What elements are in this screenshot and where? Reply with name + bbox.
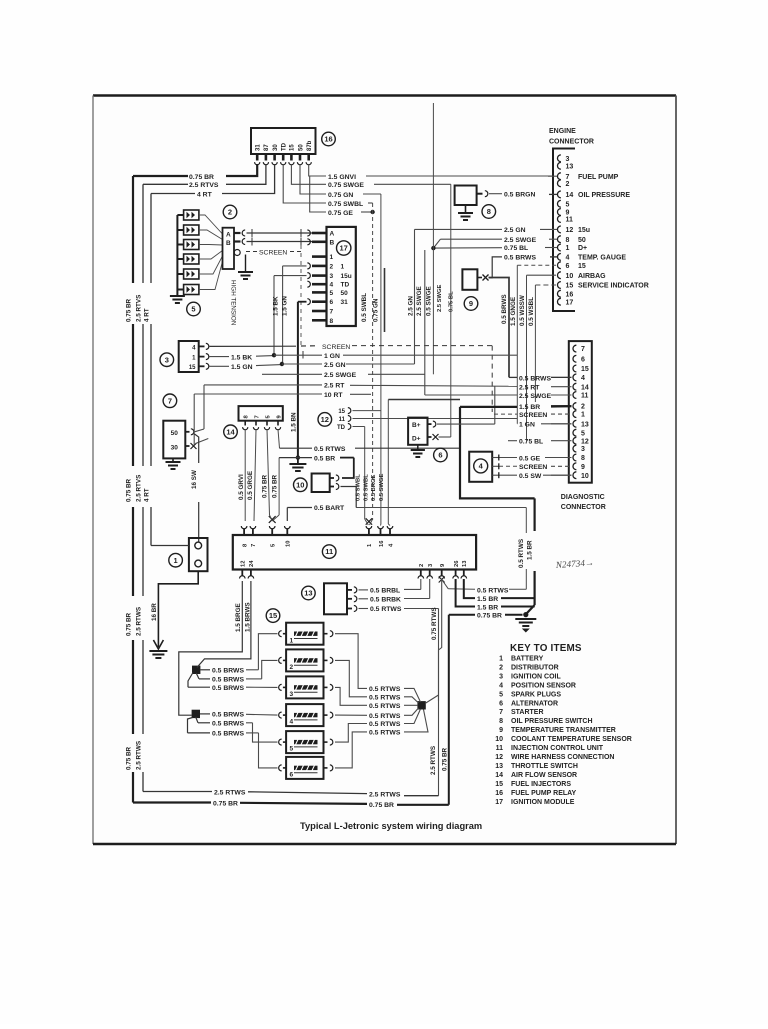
svg-text:D+: D+ bbox=[412, 435, 421, 442]
svg-text:2: 2 bbox=[419, 564, 425, 567]
svg-text:SCREEN: SCREEN bbox=[519, 464, 547, 471]
svg-text:15: 15 bbox=[338, 409, 345, 415]
svg-text:9: 9 bbox=[469, 299, 473, 308]
svg-text:7: 7 bbox=[566, 174, 570, 181]
svg-text:3: 3 bbox=[290, 691, 294, 698]
svg-text:6: 6 bbox=[438, 451, 442, 460]
svg-text:THROTTLE SWITCH: THROTTLE SWITCH bbox=[511, 763, 578, 770]
svg-text:8: 8 bbox=[330, 318, 334, 325]
svg-text:2.5 RTVS: 2.5 RTVS bbox=[189, 182, 219, 189]
svg-text:16 SW: 16 SW bbox=[191, 470, 198, 489]
svg-text:15: 15 bbox=[290, 144, 296, 151]
svg-text:8: 8 bbox=[499, 718, 503, 725]
svg-text:14: 14 bbox=[226, 427, 235, 436]
svg-text:15: 15 bbox=[269, 611, 277, 620]
svg-text:1: 1 bbox=[566, 245, 570, 252]
svg-text:10: 10 bbox=[495, 736, 503, 743]
svg-text:SCREEN: SCREEN bbox=[322, 344, 350, 351]
svg-text:A: A bbox=[330, 231, 335, 238]
svg-text:2.5 RT: 2.5 RT bbox=[519, 385, 540, 392]
svg-text:7: 7 bbox=[330, 309, 334, 316]
svg-text:TD: TD bbox=[337, 425, 346, 431]
svg-text:ENGINE: ENGINE bbox=[549, 128, 576, 135]
svg-text:5: 5 bbox=[330, 290, 334, 297]
svg-text:8: 8 bbox=[581, 455, 585, 462]
svg-text:4: 4 bbox=[566, 255, 570, 262]
svg-text:0.5 BRWS: 0.5 BRWS bbox=[504, 255, 536, 262]
svg-text:12: 12 bbox=[581, 438, 589, 445]
svg-text:KEY TO ITEMS: KEY TO ITEMS bbox=[510, 643, 582, 654]
svg-text:7: 7 bbox=[581, 346, 585, 353]
svg-text:0.5 BRWS: 0.5 BRWS bbox=[519, 375, 551, 382]
svg-text:DISTRIBUTOR: DISTRIBUTOR bbox=[511, 664, 559, 671]
svg-text:0.75 GN: 0.75 GN bbox=[328, 192, 353, 199]
svg-text:0.5 SWBL: 0.5 SWBL bbox=[363, 474, 369, 501]
svg-text:6: 6 bbox=[290, 772, 294, 779]
svg-text:0.5 BRBL: 0.5 BRBL bbox=[370, 588, 400, 595]
svg-text:0.75 GE: 0.75 GE bbox=[328, 210, 353, 217]
svg-text:1: 1 bbox=[174, 556, 178, 565]
svg-text:11: 11 bbox=[325, 547, 333, 556]
svg-text:15u: 15u bbox=[578, 227, 590, 234]
svg-text:12: 12 bbox=[241, 561, 247, 567]
svg-text:7: 7 bbox=[251, 544, 257, 547]
svg-text:FUEL PUMP: FUEL PUMP bbox=[578, 174, 619, 181]
svg-text:6: 6 bbox=[499, 700, 503, 707]
svg-text:87b: 87b bbox=[307, 140, 313, 151]
svg-text:0.75 BR: 0.75 BR bbox=[125, 746, 132, 770]
svg-text:2.5 RTWS: 2.5 RTWS bbox=[369, 792, 401, 799]
svg-text:IGNITION COIL: IGNITION COIL bbox=[511, 673, 562, 680]
svg-text:16: 16 bbox=[566, 291, 574, 298]
svg-text:0.75 GN: 0.75 GN bbox=[373, 298, 380, 322]
svg-text:0.75 BR: 0.75 BR bbox=[272, 474, 279, 498]
svg-text:9: 9 bbox=[499, 727, 503, 734]
svg-text:0.75 BR: 0.75 BR bbox=[125, 298, 132, 322]
svg-text:50: 50 bbox=[578, 237, 586, 244]
svg-text:7: 7 bbox=[499, 709, 503, 716]
svg-text:17: 17 bbox=[566, 299, 574, 306]
svg-text:B: B bbox=[330, 239, 335, 246]
svg-text:0.75 BL: 0.75 BL bbox=[449, 291, 455, 312]
svg-text:ALTERNATOR: ALTERNATOR bbox=[511, 700, 558, 707]
svg-text:BATTERY: BATTERY bbox=[511, 655, 544, 662]
svg-text:12: 12 bbox=[566, 227, 574, 234]
svg-text:2.5 SWGE: 2.5 SWGE bbox=[519, 393, 552, 400]
svg-text:0.5 RTWS: 0.5 RTWS bbox=[477, 587, 509, 594]
svg-text:2.5 RT: 2.5 RT bbox=[324, 383, 345, 390]
svg-text:15: 15 bbox=[578, 263, 586, 270]
svg-text:5: 5 bbox=[499, 691, 503, 698]
svg-text:0.75 SWGE: 0.75 SWGE bbox=[328, 182, 364, 189]
svg-text:B: B bbox=[226, 240, 231, 247]
svg-text:2.5 GN: 2.5 GN bbox=[504, 227, 526, 234]
svg-text:9: 9 bbox=[566, 210, 570, 217]
svg-text:0.5 BR: 0.5 BR bbox=[314, 455, 335, 462]
svg-text:CONNECTOR: CONNECTOR bbox=[549, 139, 594, 146]
svg-text:11: 11 bbox=[566, 217, 574, 224]
svg-text:4: 4 bbox=[290, 719, 294, 726]
svg-text:TEMPERATURE TRANSMITTER: TEMPERATURE TRANSMITTER bbox=[511, 727, 616, 734]
svg-text:0.75 BL: 0.75 BL bbox=[519, 439, 543, 446]
svg-text:WIRE HARNESS CONNECTION: WIRE HARNESS CONNECTION bbox=[511, 754, 614, 761]
svg-text:0.5 RTWS: 0.5 RTWS bbox=[369, 730, 401, 737]
svg-text:1.5 BK: 1.5 BK bbox=[273, 296, 280, 316]
svg-text:D+: D+ bbox=[578, 245, 587, 252]
svg-text:11: 11 bbox=[581, 393, 589, 400]
svg-text:0.75 BR: 0.75 BR bbox=[262, 474, 269, 498]
svg-text:13: 13 bbox=[304, 589, 312, 598]
svg-text:15: 15 bbox=[566, 283, 574, 290]
svg-text:4: 4 bbox=[330, 282, 334, 289]
svg-text:0.5 BART: 0.5 BART bbox=[314, 505, 345, 512]
svg-text:2.5 RTWS: 2.5 RTWS bbox=[135, 607, 142, 636]
svg-text:15: 15 bbox=[189, 365, 196, 371]
svg-text:16: 16 bbox=[495, 790, 503, 797]
svg-text:3: 3 bbox=[566, 156, 570, 163]
svg-text:0.5 BRGN: 0.5 BRGN bbox=[504, 191, 535, 198]
svg-text:0.75 RTWS: 0.75 RTWS bbox=[431, 607, 438, 640]
svg-text:87: 87 bbox=[264, 144, 270, 151]
svg-text:0.5 BRWS: 0.5 BRWS bbox=[212, 721, 244, 728]
svg-text:0.75 BR: 0.75 BR bbox=[477, 613, 502, 620]
svg-text:2.5 SWGE: 2.5 SWGE bbox=[504, 237, 537, 244]
svg-text:0.5 BRWS: 0.5 BRWS bbox=[212, 668, 244, 675]
svg-text:15: 15 bbox=[581, 366, 589, 373]
svg-text:0.5 RTWS: 0.5 RTWS bbox=[369, 713, 401, 720]
svg-text:1 GN: 1 GN bbox=[324, 353, 340, 360]
svg-text:0.75 BR: 0.75 BR bbox=[125, 478, 132, 502]
svg-text:12: 12 bbox=[495, 754, 503, 761]
svg-text:0.75 BR: 0.75 BR bbox=[125, 612, 132, 636]
svg-text:0.5 BRWS: 0.5 BRWS bbox=[501, 294, 508, 324]
svg-text:0.5 RTWS: 0.5 RTWS bbox=[370, 606, 402, 613]
svg-text:2: 2 bbox=[499, 664, 503, 671]
svg-text:3: 3 bbox=[330, 273, 334, 280]
svg-text:SERVICE INDICATOR: SERVICE INDICATOR bbox=[578, 283, 649, 290]
svg-text:POSITION SENSOR: POSITION SENSOR bbox=[511, 682, 576, 689]
svg-text:5: 5 bbox=[566, 201, 570, 208]
svg-text:0.75 BL: 0.75 BL bbox=[504, 245, 528, 252]
svg-text:0.5 BRWS: 0.5 BRWS bbox=[212, 677, 244, 684]
svg-text:2: 2 bbox=[228, 208, 232, 217]
svg-text:14: 14 bbox=[495, 772, 503, 779]
svg-text:2.5 RTWS: 2.5 RTWS bbox=[430, 746, 437, 775]
svg-text:1.5 BRWS: 1.5 BRWS bbox=[244, 602, 251, 632]
svg-text:6: 6 bbox=[581, 356, 585, 363]
svg-text:SPARK PLUGS: SPARK PLUGS bbox=[511, 691, 561, 698]
svg-text:12: 12 bbox=[321, 415, 329, 424]
svg-text:1: 1 bbox=[330, 254, 334, 261]
svg-text:5: 5 bbox=[290, 746, 294, 753]
svg-text:CONNECTOR: CONNECTOR bbox=[561, 504, 606, 511]
svg-text:SCREEN: SCREEN bbox=[519, 412, 547, 419]
svg-text:2.5 RTVS: 2.5 RTVS bbox=[135, 475, 142, 502]
svg-text:1.5 BR: 1.5 BR bbox=[477, 604, 498, 611]
svg-text:1.5 GN: 1.5 GN bbox=[231, 364, 253, 371]
svg-text:26: 26 bbox=[454, 560, 460, 567]
svg-text:4: 4 bbox=[499, 682, 503, 689]
svg-text:2.5 GN: 2.5 GN bbox=[407, 296, 414, 316]
svg-text:2: 2 bbox=[566, 181, 570, 188]
svg-text:14: 14 bbox=[566, 192, 574, 199]
svg-text:16 BR: 16 BR bbox=[151, 603, 158, 621]
svg-text:COOLANT TEMPERATURE SENSOR: COOLANT TEMPERATURE SENSOR bbox=[511, 736, 632, 743]
svg-text:1.5 BK: 1.5 BK bbox=[231, 354, 252, 361]
svg-text:1.5 GNGE: 1.5 GNGE bbox=[510, 297, 517, 326]
svg-text:17: 17 bbox=[340, 244, 348, 253]
svg-text:0.5 BRWS: 0.5 BRWS bbox=[212, 685, 244, 692]
svg-text:2.5 SWGE: 2.5 SWGE bbox=[416, 286, 423, 316]
svg-text:0.75 BR: 0.75 BR bbox=[213, 800, 238, 807]
svg-text:3: 3 bbox=[581, 446, 585, 453]
svg-text:16: 16 bbox=[379, 540, 385, 547]
svg-text:6: 6 bbox=[566, 263, 570, 270]
svg-text:30: 30 bbox=[171, 444, 179, 451]
svg-text:Typical L-Jetronic system wiri: Typical L-Jetronic system wiring diagram bbox=[300, 821, 482, 831]
svg-text:0.5 RTWS: 0.5 RTWS bbox=[369, 695, 401, 702]
svg-text:9: 9 bbox=[581, 464, 585, 471]
svg-text:2: 2 bbox=[581, 404, 585, 411]
svg-text:2: 2 bbox=[330, 263, 334, 270]
svg-text:13: 13 bbox=[462, 560, 468, 567]
svg-text:0.5 GE: 0.5 GE bbox=[519, 455, 541, 462]
svg-text:DIAGNOSTIC: DIAGNOSTIC bbox=[561, 494, 605, 501]
svg-text:13: 13 bbox=[566, 163, 574, 170]
svg-text:FUEL PUMP RELAY: FUEL PUMP RELAY bbox=[511, 790, 577, 797]
svg-text:1: 1 bbox=[499, 655, 503, 662]
svg-text:OIL PRESSURE: OIL PRESSURE bbox=[578, 192, 630, 199]
svg-text:7: 7 bbox=[168, 396, 172, 405]
svg-text:1.5 BRGE: 1.5 BRGE bbox=[235, 603, 242, 632]
svg-text:4 RT: 4 RT bbox=[144, 488, 151, 502]
svg-text:2: 2 bbox=[290, 664, 294, 671]
svg-text:3: 3 bbox=[499, 673, 503, 680]
svg-text:5: 5 bbox=[581, 430, 585, 437]
svg-text:STARTER: STARTER bbox=[511, 709, 544, 716]
svg-text:2.5 SWGE: 2.5 SWGE bbox=[324, 372, 357, 379]
svg-text:8: 8 bbox=[566, 237, 570, 244]
svg-text:10: 10 bbox=[566, 273, 574, 280]
svg-text:10 RT: 10 RT bbox=[324, 392, 343, 399]
svg-text:0.75 BR: 0.75 BR bbox=[189, 174, 214, 181]
svg-text:4: 4 bbox=[581, 375, 585, 382]
svg-text:0.75 BR: 0.75 BR bbox=[442, 747, 449, 771]
svg-text:0.5 WSBL: 0.5 WSBL bbox=[528, 297, 535, 326]
svg-text:6: 6 bbox=[330, 299, 334, 306]
svg-text:2.5 SWGE: 2.5 SWGE bbox=[437, 284, 443, 312]
svg-text:31: 31 bbox=[341, 299, 349, 306]
svg-text:0.5 SW: 0.5 SW bbox=[519, 473, 542, 480]
svg-text:4 RT: 4 RT bbox=[197, 191, 213, 198]
svg-text:31: 31 bbox=[256, 144, 262, 151]
svg-text:0.5 BRBK: 0.5 BRBK bbox=[370, 597, 401, 604]
svg-text:TD: TD bbox=[282, 142, 288, 151]
svg-text:0.5 SWGE: 0.5 SWGE bbox=[426, 286, 433, 316]
svg-text:0.5 RTWS: 0.5 RTWS bbox=[518, 539, 525, 568]
svg-text:2.5 GN: 2.5 GN bbox=[324, 362, 346, 369]
svg-text:1.5 BN: 1.5 BN bbox=[290, 412, 297, 432]
svg-text:0.5 BRWS: 0.5 BRWS bbox=[212, 712, 244, 719]
svg-text:2.5 RTWS: 2.5 RTWS bbox=[135, 741, 142, 770]
svg-text:50: 50 bbox=[171, 430, 179, 437]
svg-text:0.5 BRGE: 0.5 BRGE bbox=[371, 474, 377, 501]
svg-text:0.5 GRVI: 0.5 GRVI bbox=[238, 474, 245, 500]
svg-text:0.5 RTWS: 0.5 RTWS bbox=[314, 446, 346, 453]
svg-text:INJECTION CONTROL UNIT: INJECTION CONTROL UNIT bbox=[511, 745, 604, 752]
svg-text:OIL PRESSURE SWITCH: OIL PRESSURE SWITCH bbox=[511, 718, 593, 725]
svg-text:B+: B+ bbox=[412, 422, 421, 429]
svg-text:13: 13 bbox=[495, 763, 503, 770]
svg-text:15u: 15u bbox=[341, 273, 352, 280]
svg-text:11: 11 bbox=[339, 417, 346, 423]
svg-text:8: 8 bbox=[487, 207, 491, 216]
svg-text:1: 1 bbox=[581, 412, 585, 419]
svg-text:17: 17 bbox=[495, 799, 503, 806]
svg-text:0.5 SWBL: 0.5 SWBL bbox=[361, 293, 368, 322]
svg-text:0.75 SWBL: 0.75 SWBL bbox=[328, 201, 363, 208]
svg-text:0.5 SWGE: 0.5 SWGE bbox=[379, 473, 385, 501]
svg-text:1 GN: 1 GN bbox=[519, 422, 535, 429]
svg-text:1.5 BR: 1.5 BR bbox=[527, 540, 534, 560]
svg-text:1.5 BR: 1.5 BR bbox=[519, 404, 540, 411]
svg-text:15: 15 bbox=[495, 781, 503, 788]
svg-text:4 RT: 4 RT bbox=[144, 308, 151, 322]
svg-text:50: 50 bbox=[341, 290, 349, 297]
svg-text:HIGH TENSION: HIGH TENSION bbox=[230, 280, 237, 326]
svg-text:10: 10 bbox=[286, 541, 292, 547]
svg-text:TEMP. GAUGE: TEMP. GAUGE bbox=[578, 255, 626, 262]
svg-text:16: 16 bbox=[324, 135, 332, 144]
svg-text:7: 7 bbox=[254, 415, 260, 418]
svg-text:1.5 GN: 1.5 GN bbox=[281, 296, 288, 316]
svg-text:0.5 RTWS: 0.5 RTWS bbox=[369, 686, 401, 693]
svg-text:0.75 BR: 0.75 BR bbox=[369, 802, 394, 809]
svg-text:3: 3 bbox=[165, 355, 169, 364]
svg-text:AIRBAG: AIRBAG bbox=[578, 273, 606, 280]
svg-text:2.5 RTWS: 2.5 RTWS bbox=[214, 789, 246, 796]
svg-text:11: 11 bbox=[496, 745, 504, 752]
svg-text:13: 13 bbox=[581, 421, 589, 428]
svg-text:0.5 RTWS: 0.5 RTWS bbox=[369, 703, 401, 710]
svg-text:0.5 GRGE: 0.5 GRGE bbox=[247, 471, 254, 500]
svg-text:5: 5 bbox=[191, 305, 195, 314]
svg-text:1: 1 bbox=[341, 263, 345, 270]
svg-text:24: 24 bbox=[249, 560, 255, 567]
svg-text:50: 50 bbox=[298, 144, 304, 151]
svg-text:0.5 RTWS: 0.5 RTWS bbox=[369, 721, 401, 728]
svg-text:1: 1 bbox=[290, 637, 294, 644]
svg-text:2.5 RTVS: 2.5 RTVS bbox=[135, 295, 142, 322]
svg-text:AIR FLOW SENSOR: AIR FLOW SENSOR bbox=[511, 772, 577, 779]
svg-text:30: 30 bbox=[273, 144, 279, 151]
svg-text:10: 10 bbox=[296, 480, 304, 489]
svg-text:SCREEN: SCREEN bbox=[259, 249, 287, 256]
svg-text:1.5 BR: 1.5 BR bbox=[477, 596, 498, 603]
svg-text:0.5 SWBL: 0.5 SWBL bbox=[356, 474, 362, 501]
svg-text:0.5 WSSW: 0.5 WSSW bbox=[519, 295, 526, 326]
svg-text:FUEL INJECTORS: FUEL INJECTORS bbox=[511, 781, 571, 788]
svg-text:TD: TD bbox=[341, 282, 350, 289]
svg-text:10: 10 bbox=[581, 473, 589, 480]
svg-text:IGNITION MODULE: IGNITION MODULE bbox=[511, 799, 575, 806]
svg-text:0.5 BRWS: 0.5 BRWS bbox=[212, 731, 244, 738]
svg-text:1.5 GNVI: 1.5 GNVI bbox=[328, 174, 356, 181]
svg-text:A: A bbox=[226, 231, 231, 238]
svg-text:14: 14 bbox=[581, 384, 589, 391]
